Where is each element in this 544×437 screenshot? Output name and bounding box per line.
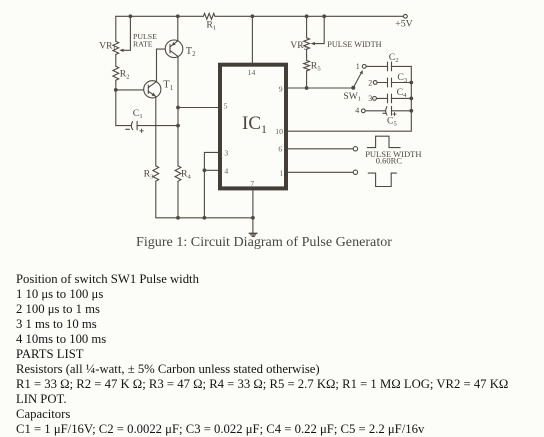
- potentiometer VR2: [304, 38, 310, 49]
- wire VR1 wiper to rail: [122, 16, 130, 50]
- wire VR2 to R5: [306, 49, 308, 60]
- node rail-wiper2: [322, 14, 326, 18]
- wire VR1 to R2: [115, 54, 117, 66]
- capacitor C3: [388, 78, 412, 87]
- svg-text:C3: C3: [397, 72, 408, 84]
- resistor R4: [175, 166, 181, 181]
- node rail-T2: [176, 14, 180, 18]
- wire pin 1 to output: [288, 171, 353, 173]
- node R5-pin9: [305, 86, 309, 90]
- node pin5-T2 line: [176, 106, 180, 110]
- node common-C5: [409, 109, 413, 113]
- wire VR2 wiper to rail: [314, 16, 324, 43]
- svg-text:IC1: IC1: [242, 113, 267, 136]
- svg-text:3: 3: [224, 148, 228, 157]
- node common-C4: [409, 97, 413, 101]
- wire T2 emitter to rail: [177, 16, 179, 40]
- svg-text:VR2: VR2: [290, 41, 306, 52]
- svg-text:7: 7: [250, 179, 254, 188]
- wire pin 5: [178, 107, 218, 109]
- wire R5 to pin9 wire: [306, 71, 308, 88]
- wiper arrow VR2: [311, 42, 315, 45]
- wire T2 collector down to R4: [177, 57, 179, 166]
- svg-text:3: 3: [368, 94, 372, 103]
- svg-text:4: 4: [355, 106, 359, 115]
- svg-text:R2: R2: [120, 69, 130, 81]
- wire SW1 pos3 to C4: [377, 97, 388, 99]
- node R2-T1 base: [114, 88, 118, 92]
- wire bottom rail: [156, 217, 253, 219]
- svg-text:PULSE WIDTH: PULSE WIDTH: [327, 40, 381, 49]
- resistor R5: [304, 61, 310, 71]
- wire R4 to bottom rail: [177, 181, 179, 218]
- capacitor C4: [388, 94, 412, 103]
- svg-text:VR1: VR1: [99, 42, 115, 53]
- waveform positive pulse: [367, 136, 400, 147]
- svg-text:T2: T2: [186, 46, 196, 58]
- transistor T1: [144, 81, 161, 98]
- wire pin 3: [204, 152, 218, 217]
- svg-text:R4: R4: [181, 168, 192, 180]
- svg-text:2: 2: [368, 78, 372, 87]
- svg-text:14: 14: [248, 68, 256, 77]
- IC U1 box: [220, 65, 286, 189]
- svg-text:RATE: RATE: [133, 40, 153, 49]
- svg-text:SW1: SW1: [343, 91, 361, 103]
- wire SW1 pos2 to C3: [377, 82, 387, 84]
- wire pin 9 to SW1 pole: [288, 87, 354, 89]
- resistor R3: [153, 166, 159, 181]
- wire pin 4: [204, 169, 218, 171]
- capacitor C1: [126, 121, 178, 132]
- wire T1 collector to T2 base: [157, 49, 166, 81]
- wire VR2 branch from rail: [306, 16, 308, 38]
- svg-text:1: 1: [356, 62, 360, 71]
- svg-text:4: 4: [224, 166, 228, 175]
- node pin3/pin4: [203, 168, 207, 172]
- resistor R1: [203, 13, 215, 19]
- potentiometer VR1: [113, 41, 119, 54]
- wire pin 7 to ground: [252, 190, 254, 233]
- node rail-pin14: [251, 14, 255, 18]
- transistor T2: [165, 40, 183, 58]
- svg-text:0.60RC: 0.60RC: [376, 155, 403, 165]
- node rail-VR2: [305, 14, 309, 18]
- wire R2 down to C1: [116, 80, 131, 125]
- capacitor C2: [388, 62, 412, 71]
- terminal +5V: [404, 14, 408, 18]
- node common-C3: [409, 81, 413, 85]
- svg-text:C1: C1: [133, 108, 143, 120]
- node C1-T2 line: [176, 124, 180, 128]
- switch SW1: [351, 65, 377, 113]
- svg-text:R5: R5: [311, 61, 322, 73]
- wire SW1 pos4 to C5: [365, 110, 385, 112]
- capacitor C5: [383, 106, 411, 115]
- terminal output pin 1: [353, 170, 357, 174]
- waveform negative pulse: [368, 173, 396, 186]
- node rail-pin34: [203, 216, 207, 220]
- wire pin 6 to output: [288, 148, 353, 150]
- wire top rail right segment: [215, 15, 403, 17]
- svg-text:R1: R1: [206, 19, 216, 31]
- terminal output pin 6: [353, 147, 357, 151]
- caption: [136, 234, 392, 251]
- wire VR1 branch from rail: [115, 16, 117, 41]
- node rail-R4: [176, 216, 180, 220]
- wire T1 base: [116, 89, 144, 91]
- ground: [249, 233, 257, 236]
- wire T1 emitter down to R3: [155, 97, 157, 166]
- svg-text:1: 1: [279, 169, 283, 178]
- svg-text:+5V: +5V: [395, 19, 413, 30]
- wire SW1 pos1 to C2: [366, 65, 387, 67]
- node rail-wiper1: [129, 14, 133, 18]
- node rail-pin7: [251, 216, 255, 220]
- parts list text: [16, 272, 508, 436]
- svg-text:C5: C5: [387, 115, 398, 127]
- wire top rail left segment: [116, 15, 204, 17]
- svg-text:9: 9: [279, 84, 283, 93]
- wire capacitor common line to pin 10: [288, 66, 411, 131]
- resistor R2: [113, 66, 119, 80]
- svg-text:C2: C2: [389, 52, 399, 64]
- wiper arrow VR1: [119, 49, 123, 52]
- svg-text:10: 10: [275, 127, 283, 136]
- wire pin 14 to rail: [251, 16, 253, 62]
- svg-text:6: 6: [278, 145, 282, 154]
- svg-text:T1: T1: [163, 80, 173, 92]
- svg-text:C4: C4: [397, 87, 408, 99]
- svg-text:5: 5: [224, 101, 228, 110]
- wire R3 to bottom rail: [155, 181, 157, 218]
